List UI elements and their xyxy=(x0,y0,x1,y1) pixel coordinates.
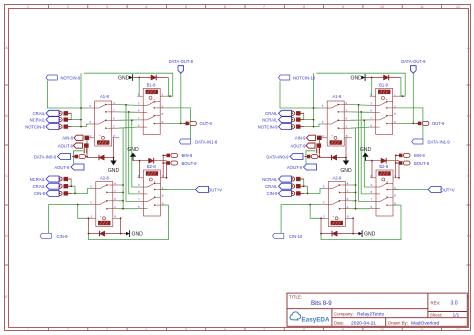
svg-text:OUT+V: OUT+V xyxy=(208,187,222,192)
svg-text:A1-9: A1-9 xyxy=(333,94,343,99)
svg-text:6: 6 xyxy=(224,5,226,9)
svg-text:2: 2 xyxy=(67,5,69,9)
svg-text:CRAIL: CRAIL xyxy=(265,111,278,116)
svg-text:CIN-9: CIN-9 xyxy=(57,234,69,239)
svg-text:AOUT-8: AOUT-8 xyxy=(54,165,70,170)
svg-text:B2-8: B2-8 xyxy=(147,164,157,169)
svg-text:CIN-9: CIN-9 xyxy=(267,191,279,196)
svg-text:D: D xyxy=(5,234,8,238)
svg-text:EasyEDA: EasyEDA xyxy=(302,317,330,324)
svg-text:3.0: 3.0 xyxy=(451,301,458,307)
svg-text:3: 3 xyxy=(106,5,108,9)
svg-text:A1-8: A1-8 xyxy=(100,94,110,99)
svg-text:CIN-10: CIN-10 xyxy=(289,234,303,239)
svg-text:10: 10 xyxy=(380,5,384,9)
svg-text:CRAIL: CRAIL xyxy=(33,111,46,116)
svg-text:8: 8 xyxy=(303,5,305,9)
svg-text:OUT-8: OUT-8 xyxy=(200,121,213,126)
svg-text:MadOverlord: MadOverlord xyxy=(411,321,440,327)
svg-text:AOUT-8: AOUT-8 xyxy=(58,143,74,148)
svg-text:12: 12 xyxy=(456,5,460,9)
svg-text:1: 1 xyxy=(27,328,29,332)
svg-text:4: 4 xyxy=(145,328,147,332)
svg-text:5: 5 xyxy=(185,328,187,332)
svg-text:B2-9: B2-9 xyxy=(379,164,389,169)
svg-text:CIN-8: CIN-8 xyxy=(34,191,46,196)
svg-text:9: 9 xyxy=(342,328,344,332)
svg-text:6: 6 xyxy=(224,328,226,332)
svg-text:B1-8: B1-8 xyxy=(147,82,157,87)
svg-text:2020-04-21: 2020-04-21 xyxy=(351,321,376,327)
svg-text:A2-8: A2-8 xyxy=(100,176,110,181)
svg-text:10: 10 xyxy=(380,328,384,332)
svg-text:Sheet:: Sheet: xyxy=(430,313,442,318)
svg-text:1: 1 xyxy=(27,5,29,9)
svg-text:11: 11 xyxy=(420,328,424,332)
svg-text:OUT+V: OUT+V xyxy=(441,187,455,192)
svg-text:3: 3 xyxy=(106,328,108,332)
svg-text:NOTCIN-10: NOTCIN-10 xyxy=(293,75,316,80)
svg-text:BOUT-9: BOUT-9 xyxy=(414,161,430,166)
svg-text:NCRAIL: NCRAIL xyxy=(262,117,278,122)
svg-text:NCRAIL: NCRAIL xyxy=(262,177,278,182)
svg-text:BIN-9: BIN-9 xyxy=(414,153,425,158)
svg-text:Company:: Company: xyxy=(334,312,354,317)
svg-text:BIN-8: BIN-8 xyxy=(182,153,193,158)
svg-text:NCRAIL: NCRAIL xyxy=(30,177,46,182)
svg-text:12: 12 xyxy=(456,328,460,332)
svg-text:8: 8 xyxy=(303,328,305,332)
svg-text:REV:: REV: xyxy=(431,300,441,305)
svg-text:C: C xyxy=(467,174,470,178)
svg-text:2: 2 xyxy=(67,328,69,332)
svg-text:DATA-IN0-8: DATA-IN0-8 xyxy=(34,154,57,159)
svg-text:7: 7 xyxy=(263,328,265,332)
svg-text:NCRAIL: NCRAIL xyxy=(30,117,46,122)
svg-text:Date:: Date: xyxy=(334,320,344,325)
svg-text:A2-9: A2-9 xyxy=(333,176,343,181)
svg-text:B1-9: B1-9 xyxy=(379,82,389,87)
svg-text:CRAIL: CRAIL xyxy=(33,184,46,189)
svg-text:5: 5 xyxy=(185,5,187,9)
svg-text:Bits 8-9: Bits 8-9 xyxy=(311,300,332,307)
svg-text:9: 9 xyxy=(342,5,344,9)
svg-text:4: 4 xyxy=(145,5,147,9)
svg-text:NOTCIN-9: NOTCIN-9 xyxy=(258,124,278,129)
svg-text:DATA-IN1-9: DATA-IN1-9 xyxy=(428,139,451,144)
svg-text:Relay2Tetris: Relay2Tetris xyxy=(357,312,384,318)
svg-text:OUT-9: OUT-9 xyxy=(432,121,445,126)
svg-text:AOUT-9: AOUT-9 xyxy=(287,165,303,170)
svg-text:7: 7 xyxy=(263,5,265,9)
svg-text:CRAIL: CRAIL xyxy=(265,184,278,189)
svg-text:TITLE:: TITLE: xyxy=(289,295,302,300)
svg-text:1/1: 1/1 xyxy=(453,313,460,319)
svg-text:BOUT-8: BOUT-8 xyxy=(182,161,198,166)
svg-text:DATA-OUT-8: DATA-OUT-8 xyxy=(169,59,194,64)
svg-text:Drawn By:: Drawn By: xyxy=(388,320,408,325)
svg-text:AIN-8: AIN-8 xyxy=(62,136,73,141)
svg-text:11: 11 xyxy=(420,5,424,9)
svg-text:DATA-OUT-9: DATA-OUT-9 xyxy=(401,59,426,64)
svg-text:NOTCIN-8: NOTCIN-8 xyxy=(25,124,45,129)
svg-text:C: C xyxy=(5,174,8,178)
svg-text:D: D xyxy=(467,234,470,238)
svg-text:AOUT-9: AOUT-9 xyxy=(290,143,306,148)
svg-text:DATA-IN1-8: DATA-IN1-8 xyxy=(195,139,218,144)
svg-text:AIN-9: AIN-9 xyxy=(295,136,306,141)
svg-text:DATA-IN0-9: DATA-IN0-9 xyxy=(266,154,289,159)
svg-text:NOTCIN-9: NOTCIN-9 xyxy=(61,75,81,80)
